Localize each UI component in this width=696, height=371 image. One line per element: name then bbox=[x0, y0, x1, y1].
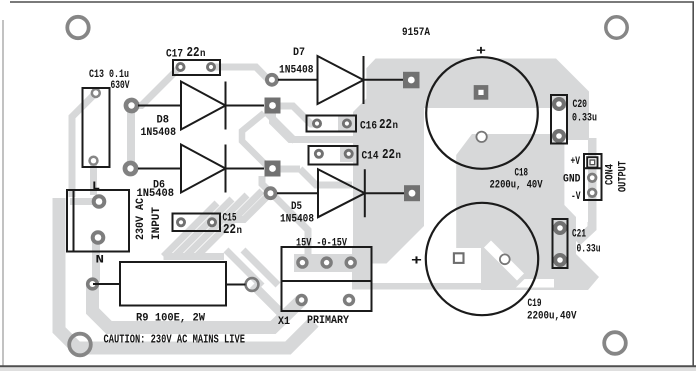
pad C16 right bbox=[342, 119, 352, 129]
pad X1 sec left bbox=[296, 256, 308, 268]
mounting hole top-right bbox=[606, 17, 627, 38]
svg-text:C21: C21 bbox=[572, 229, 586, 241]
wire below C14 bbox=[300, 169, 352, 185]
mounting hole bottom-left bbox=[69, 334, 91, 356]
wire D8 pad diag to C14 row bbox=[266, 112, 295, 141]
pad C20 top bbox=[552, 97, 566, 111]
capacitor C16 outline bbox=[307, 116, 357, 132]
svg-text:C18: C18 bbox=[515, 168, 529, 180]
svg-text:0.33u: 0.33u bbox=[572, 113, 597, 125]
svg-text:2200u,40V: 2200u,40V bbox=[527, 311, 577, 323]
wire D8 pad to C16 left pad bbox=[273, 106, 318, 124]
svg-text:OUTPUT: OUTPUT bbox=[618, 161, 630, 192]
svg-text:+V: +V bbox=[571, 156, 581, 168]
pad C17 left bbox=[176, 62, 186, 72]
pad X live bbox=[92, 194, 107, 209]
wire C14 right pad stub bbox=[340, 147, 358, 162]
pad C18 plus square bbox=[474, 85, 489, 100]
pad X1 sec mid bbox=[320, 256, 332, 268]
wire C17 right to D7 anode bbox=[211, 67, 269, 80]
pad C18 minus bbox=[476, 132, 486, 142]
pad D7 cathode square bbox=[403, 72, 420, 89]
wire jog to D6 pad bbox=[242, 113, 271, 170]
svg-text:n: n bbox=[200, 49, 206, 60]
svg-text:X1: X1 bbox=[278, 316, 290, 328]
capacitor C17 outline bbox=[173, 60, 220, 75]
svg-text:INPUT: INPUT bbox=[151, 207, 163, 240]
svg-text:22: 22 bbox=[223, 223, 236, 238]
svg-text:-V: -V bbox=[571, 191, 581, 203]
svg-text:C16: C16 bbox=[360, 121, 377, 133]
wire R9 left band to X1 bbox=[93, 286, 302, 328]
wire pour A top copper bbox=[353, 59, 589, 264]
svg-text:PRIMARY: PRIMARY bbox=[307, 315, 349, 327]
capacitor C14 outline bbox=[309, 146, 358, 165]
pad X1 pri right bbox=[343, 294, 355, 306]
wire C17 left to D8 anode bbox=[132, 67, 181, 106]
pad D6 cathode square bbox=[265, 161, 281, 177]
pad D5 anode bbox=[264, 186, 278, 200]
wire L pad stub bbox=[70, 198, 99, 205]
svg-text:CAUTION: 230V AC MAINS LIVE: CAUTION: 230V AC MAINS LIVE bbox=[104, 333, 246, 347]
svg-text:N: N bbox=[96, 255, 105, 267]
svg-text:n: n bbox=[237, 226, 243, 237]
pad C19 minus bbox=[500, 254, 510, 264]
svg-text:C19: C19 bbox=[528, 298, 542, 310]
keepout channel white strip bbox=[516, 279, 554, 288]
wire gray behind X1 top pads bbox=[294, 254, 364, 272]
svg-text:9157A: 9157A bbox=[402, 27, 430, 39]
pad D6 anode bbox=[123, 161, 139, 177]
wire D5 pad stub bbox=[398, 187, 413, 200]
pad C15 right bbox=[207, 217, 217, 227]
svg-text:D7: D7 bbox=[293, 47, 305, 59]
svg-text:230V AC: 230V AC bbox=[135, 198, 147, 240]
pad R9 right bbox=[246, 278, 259, 291]
pad C21 bottom bbox=[553, 253, 567, 267]
pad C13 bottom bbox=[88, 156, 98, 166]
wire C16 right pad stub bbox=[338, 116, 356, 131]
pad CON4 -V bbox=[587, 188, 597, 198]
wire D8 pad to pour strip bbox=[273, 108, 355, 140]
diode D6 symbol bbox=[138, 145, 264, 193]
capacitor C18 circle bbox=[426, 57, 538, 169]
svg-text:R9 100E, 2W: R9 100E, 2W bbox=[136, 313, 205, 325]
capacitor C15 outline bbox=[173, 214, 221, 232]
svg-text:GND: GND bbox=[563, 174, 581, 186]
svg-text:+: + bbox=[476, 44, 486, 59]
wire D8 anode to D6 anode bbox=[127, 101, 135, 172]
resistor R9 outline bbox=[120, 262, 226, 306]
wire thin band X1 to pour B bbox=[352, 283, 492, 290]
wire C15 right to D5 anode bbox=[212, 193, 271, 219]
wire C13 bottom stub bbox=[90, 161, 97, 195]
pad X1 sec right bbox=[345, 256, 357, 268]
connector X1 outline bbox=[282, 247, 372, 311]
svg-text:0.33u: 0.33u bbox=[577, 244, 601, 256]
svg-text:n: n bbox=[393, 121, 399, 132]
connector X 230V input outline bbox=[67, 190, 129, 252]
svg-text:1N5408: 1N5408 bbox=[279, 65, 314, 77]
wire N to R9 left pad bbox=[92, 238, 100, 283]
svg-text:2200u, 40V: 2200u, 40V bbox=[490, 180, 543, 192]
mounting hole top-left bbox=[67, 17, 88, 38]
pad C14 left bbox=[314, 149, 324, 159]
wire live feed band bbox=[59, 198, 314, 348]
connector CON4 outline bbox=[584, 154, 602, 200]
pad D5 cathode square bbox=[404, 185, 420, 201]
pad CON4 GND bbox=[587, 173, 597, 183]
wire diagonal to R9 right region bbox=[226, 250, 262, 286]
wire bundle diagonal 4 bbox=[164, 203, 218, 257]
pad C13 top bbox=[91, 88, 101, 98]
svg-text:22: 22 bbox=[382, 148, 395, 163]
svg-text:22: 22 bbox=[187, 46, 200, 61]
svg-text:D5: D5 bbox=[291, 201, 302, 213]
wire bundle horizontal above R9 bbox=[164, 253, 225, 260]
svg-text:22: 22 bbox=[379, 118, 392, 133]
svg-text:C14: C14 bbox=[362, 151, 379, 163]
svg-text:1N5408: 1N5408 bbox=[280, 214, 314, 226]
mounting hole bottom-right bbox=[604, 332, 626, 354]
pad R9 left bbox=[86, 277, 99, 290]
pad C21 top bbox=[553, 221, 567, 235]
pad C14 right bbox=[344, 149, 354, 159]
pad D8 anode bbox=[124, 98, 140, 114]
keepout channel white diagonal bbox=[484, 241, 524, 281]
pad D8 cathode square bbox=[265, 98, 281, 114]
pad C19 plus square bbox=[454, 253, 464, 263]
pad D7 anode bbox=[265, 73, 279, 87]
capacitor C13 outline bbox=[83, 88, 110, 167]
pad CON4 +V square bbox=[587, 157, 597, 167]
diode D8 symbol bbox=[138, 82, 264, 130]
svg-text:1N5408: 1N5408 bbox=[141, 127, 177, 139]
pad C15 left bbox=[176, 217, 186, 227]
wire D6 pad to X1 left pad bbox=[262, 176, 308, 263]
wire R9 right spur bbox=[253, 285, 287, 319]
svg-text:CON4: CON4 bbox=[605, 164, 617, 185]
capacitor C21 outline bbox=[553, 219, 568, 268]
svg-text:n: n bbox=[396, 151, 402, 162]
wire pour B upper copper bbox=[456, 134, 599, 290]
pad X1 pri left bbox=[295, 294, 307, 306]
pad C17 right bbox=[206, 62, 216, 72]
wire bundle diagonal 1 bbox=[197, 191, 263, 257]
pad C16 left bbox=[312, 119, 322, 129]
pad X neutral bbox=[91, 230, 106, 245]
svg-text:L: L bbox=[92, 181, 100, 193]
diode D7 symbol bbox=[278, 56, 403, 104]
wire C13 top pad to L column bbox=[72, 93, 96, 197]
wire bundle diagonal 3 bbox=[175, 199, 233, 257]
svg-text:C20: C20 bbox=[573, 99, 588, 111]
wire diagonal parallel bbox=[243, 250, 278, 285]
pad C20 bottom bbox=[552, 129, 566, 143]
svg-text:D8: D8 bbox=[157, 115, 170, 127]
diode D5 symbol bbox=[277, 169, 404, 217]
wire CON4 vertical band bbox=[588, 138, 597, 224]
svg-text:C17: C17 bbox=[166, 49, 183, 61]
wire bundle diagonal 2 bbox=[186, 195, 248, 257]
capacitor C19 circle bbox=[426, 203, 538, 315]
svg-text:+: + bbox=[411, 254, 422, 270]
capacitor C20 outline bbox=[551, 95, 567, 144]
svg-text:15V -0-15V: 15V -0-15V bbox=[296, 238, 347, 250]
svg-text:630V: 630V bbox=[111, 80, 130, 92]
